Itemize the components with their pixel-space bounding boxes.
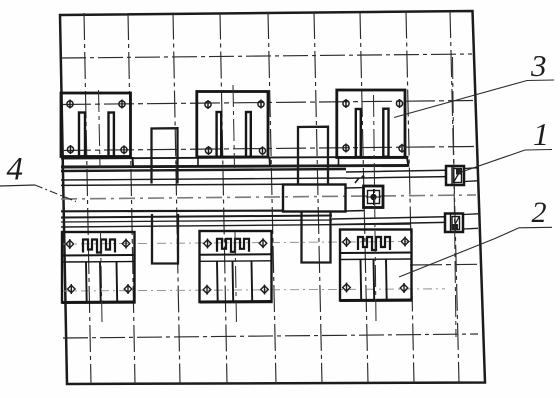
svg-text:3: 3	[530, 48, 547, 83]
right square 2	[445, 214, 463, 233]
sheet outline	[60, 11, 485, 384]
bottom modules	[62, 230, 412, 303]
centre square component	[355, 175, 383, 207]
grid horizontal centerlines	[61, 54, 478, 338]
bottom module diamond screws	[66, 237, 409, 295]
connectors collar to centre square	[346, 187, 364, 189]
top modules	[61, 90, 409, 167]
labyrinth hatch patterns in bottom modules	[83, 237, 390, 253]
top bumps between modules	[152, 127, 331, 264]
callout 3	[394, 80, 554, 118]
rod to right square 1	[346, 170, 446, 172]
module 3 unit B (top-middle clamp block)	[197, 92, 268, 158]
callout 2	[399, 227, 552, 277]
module 2 unit B (bottom-middle block)	[200, 231, 272, 302]
module 3 unit A (top-left clamp block)	[61, 93, 131, 157]
callout digits	[7, 48, 550, 229]
module 3 unit C (top-right clamp block, callout 3)	[337, 90, 405, 158]
right square 1	[446, 166, 464, 185]
svg-text:4: 4	[7, 152, 24, 188]
svg-text:2: 2	[532, 196, 547, 229]
top module screws (circle + tick)	[67, 99, 405, 155]
central shaft rails	[61, 157, 478, 229]
callout 4	[0, 185, 76, 202]
collar block on shaft	[283, 185, 346, 212]
callout 1	[460, 150, 552, 173]
svg-text:1: 1	[533, 116, 549, 152]
module 2 unit A (bottom-left block)	[62, 232, 135, 303]
module 2 unit C (bottom-right block, callout 2)	[340, 230, 412, 301]
component centrelines (partial)	[99, 57, 457, 337]
rod to right square 2	[332, 217, 445, 219]
grid vertical centerlines	[84, 11, 459, 384]
